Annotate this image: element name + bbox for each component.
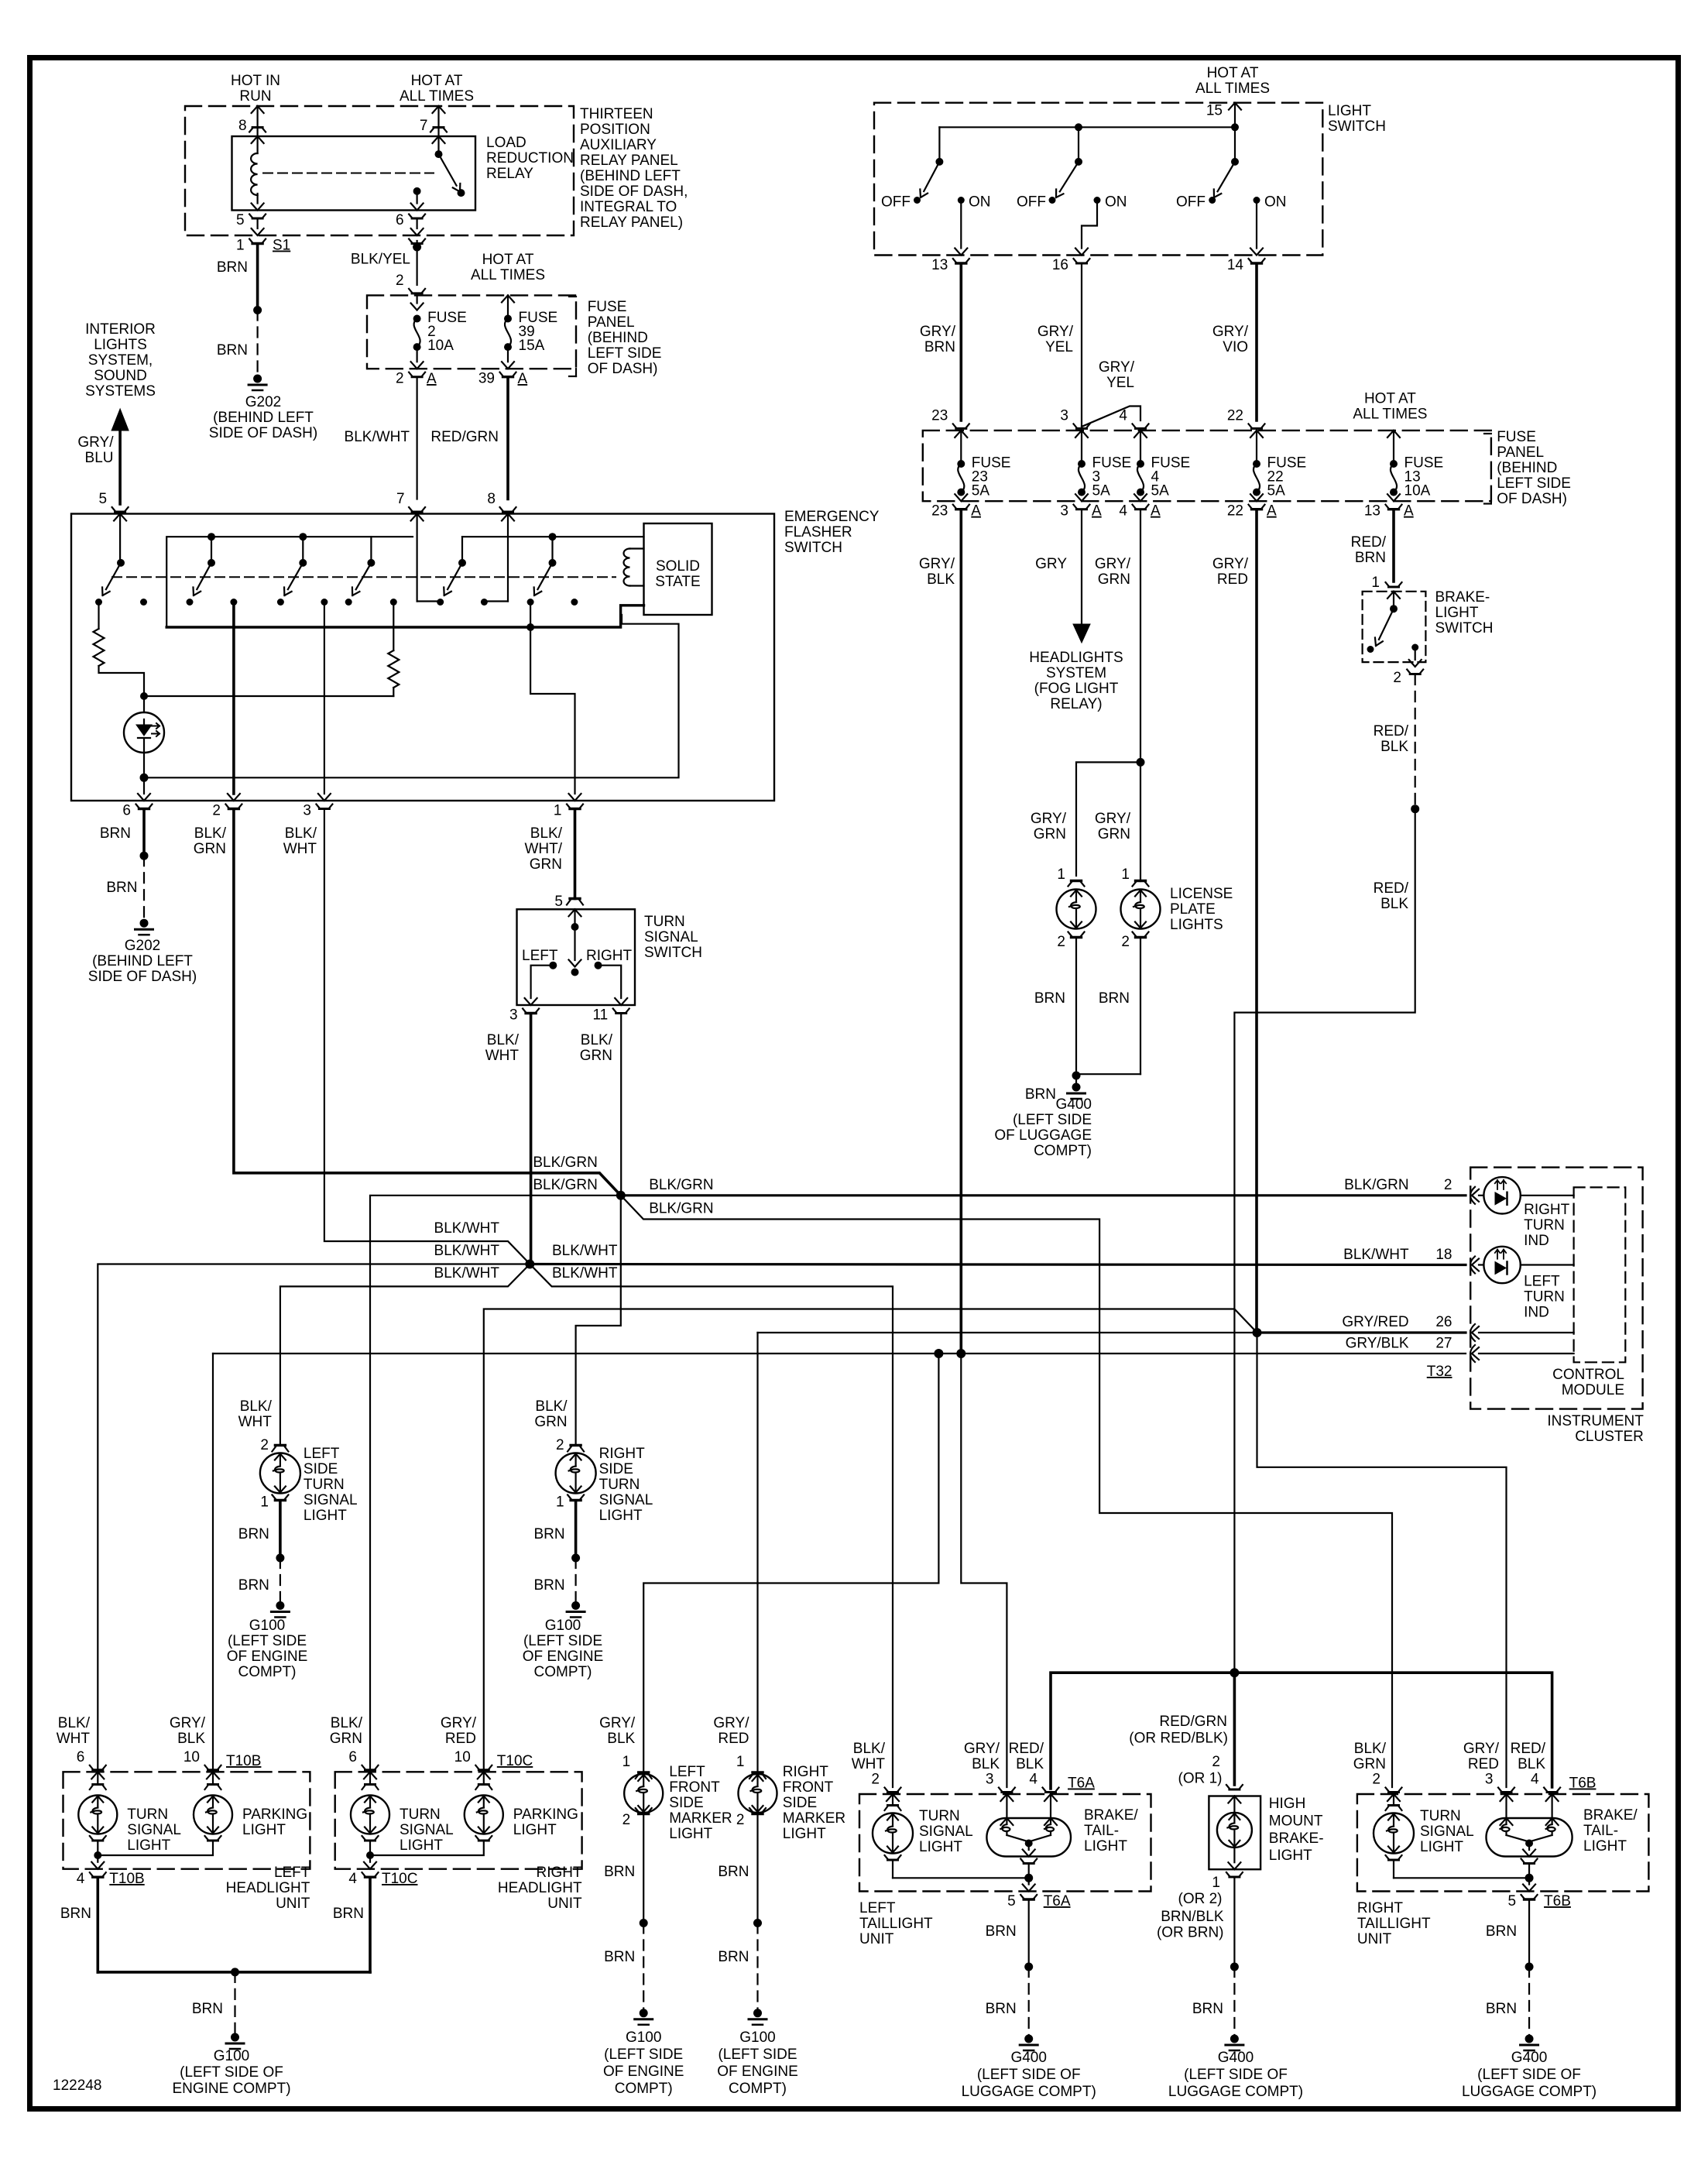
svg-text:OF DASH): OF DASH)	[1497, 491, 1567, 507]
svg-text:UNIT: UNIT	[1357, 1931, 1392, 1947]
svg-text:SWITCH: SWITCH	[784, 540, 842, 556]
svg-text:OFF: OFF	[1017, 194, 1046, 211]
ground G100 (side marker)	[753, 2009, 762, 2017]
wire GRY/BLK fuse23 down (thick)	[960, 511, 963, 1354]
svg-text:LUGGAGE COMPT): LUGGAGE COMPT)	[962, 2084, 1096, 2100]
svg-text:1: 1	[236, 238, 245, 254]
brake/tail light twin filament bulb	[986, 1818, 1071, 1857]
EFS pin5 internal stem to switch 1	[114, 514, 126, 521]
svg-text:BLK/GRN: BLK/GRN	[649, 1177, 713, 1193]
brake switch pin 2 out	[1415, 650, 1416, 660]
svg-text:5: 5	[99, 491, 108, 507]
svg-text:BLK: BLK	[972, 1756, 1000, 1772]
wire RED/BLK to taillight pins 4 (thick)	[1051, 1673, 1552, 1789]
svg-text:22: 22	[1227, 503, 1243, 520]
wire BLK/GRN to cluster pin2	[621, 1194, 1466, 1196]
svg-text:BRN: BRN	[106, 880, 137, 896]
svg-text:LEFT: LEFT	[669, 1764, 705, 1780]
svg-text:LIGHT: LIGHT	[127, 1837, 170, 1854]
svg-text:RIGHT: RIGHT	[599, 1446, 646, 1462]
wire RED/BLK to taillights	[1234, 809, 1415, 1673]
svg-text:(LEFT SIDE OF: (LEFT SIDE OF	[180, 2064, 283, 2081]
svg-text:BRN: BRN	[986, 2001, 1017, 2017]
svg-text:BLK/: BLK/	[581, 1032, 613, 1048]
svg-text:TAILLIGHT: TAILLIGHT	[1357, 1916, 1431, 1932]
svg-text:GRN: GRN	[1034, 826, 1066, 842]
fuse 39 feed arrow	[502, 295, 514, 302]
wire GRY/RED to right parking light and right marker	[484, 1309, 1257, 1772]
relay output contact to pin 6	[413, 187, 421, 195]
headlight pin 6 connector	[362, 1765, 379, 1770]
svg-text:(LEFT SIDE OF: (LEFT SIDE OF	[1477, 2067, 1581, 2083]
taillight internal ground link	[892, 1861, 893, 1879]
EFS switch contact set 6	[549, 559, 557, 567]
turn signal light bulb	[91, 1772, 104, 1779]
svg-text:LIGHT: LIGHT	[1435, 605, 1479, 621]
svg-text:BLK: BLK	[1016, 1756, 1044, 1772]
svg-text:HOT AT: HOT AT	[1207, 65, 1259, 81]
EFS switch contact set 2	[207, 559, 215, 567]
turn signal light bulb	[887, 1794, 899, 1801]
svg-text:INTEGRAL TO: INTEGRAL TO	[580, 199, 677, 215]
svg-text:BLK/: BLK/	[853, 1741, 886, 1757]
svg-text:GRN: GRN	[534, 1414, 567, 1430]
wire RED/BLK to high mount brake light	[1233, 1673, 1236, 1785]
wire BLK/WHT TSS pin3 to junction (thick)	[530, 1015, 533, 1261]
svg-text:OF LUGGAGE: OF LUGGAGE	[994, 1127, 1092, 1144]
svg-text:(LEFT SIDE OF: (LEFT SIDE OF	[1184, 2067, 1288, 2083]
ground G202	[253, 375, 262, 383]
svg-text:SIGNAL: SIGNAL	[644, 929, 698, 945]
svg-text:4: 4	[1531, 1772, 1539, 1788]
svg-text:BRN: BRN	[238, 1577, 269, 1594]
wire sw2-right to EFS pin 2 (thick)	[232, 602, 235, 794]
left headlight unit dashed box	[63, 1772, 310, 1868]
fuse 23 5A	[953, 424, 969, 428]
svg-text:GRY/: GRY/	[441, 1715, 477, 1731]
svg-text:OF ENGINE: OF ENGINE	[227, 1649, 308, 1665]
svg-text:WHT/: WHT/	[524, 841, 562, 857]
svg-text:PANEL: PANEL	[588, 314, 635, 331]
fuse 22 5A	[1249, 424, 1265, 428]
svg-text:TAIL-: TAIL-	[1583, 1823, 1618, 1839]
wire GRY/RED to right taillight pin3	[1257, 1333, 1507, 1787]
svg-text:UNIT: UNIT	[547, 1896, 582, 1912]
relay pin 6 connector	[409, 214, 425, 219]
EFS switch contact set 4	[367, 559, 375, 567]
svg-text:T10B: T10B	[109, 1871, 144, 1887]
svg-text:CLUSTER: CLUSTER	[1575, 1429, 1644, 1445]
svg-text:BRN: BRN	[604, 1949, 635, 1965]
svg-text:WHT: WHT	[852, 1756, 886, 1772]
svg-text:(LEFT SIDE: (LEFT SIDE	[523, 1633, 602, 1649]
svg-text:LIGHT: LIGHT	[400, 1837, 443, 1854]
svg-text:OFF: OFF	[881, 194, 911, 211]
fuse panel pin 2 connector	[409, 289, 425, 293]
control module dashed box	[1574, 1187, 1626, 1362]
svg-text:122248: 122248	[53, 2078, 101, 2094]
svg-text:GRN: GRN	[1098, 826, 1130, 842]
fuse 4 5A	[1133, 424, 1149, 428]
svg-text:5A: 5A	[1092, 483, 1111, 499]
svg-text:BRN: BRN	[192, 2001, 223, 2017]
svg-text:BRN: BRN	[217, 259, 248, 276]
svg-text:GRY/RED: GRY/RED	[1342, 1314, 1408, 1330]
svg-text:GRY/: GRY/	[77, 434, 114, 451]
light switch feed bus	[939, 126, 1235, 128]
wire BLK/YEL pin6 to fuse 2	[409, 239, 425, 244]
svg-text:5A: 5A	[972, 483, 990, 499]
svg-text:COMPT): COMPT)	[238, 1664, 297, 1680]
svg-text:16: 16	[1052, 257, 1068, 273]
wire GRY/BLK distribution	[213, 1353, 1466, 1354]
svg-text:BLK: BLK	[607, 1731, 635, 1747]
wire GRY/RED to cluster pin26	[1257, 1331, 1466, 1333]
svg-text:BLK/: BLK/	[1354, 1741, 1387, 1757]
TSS pin 5 connector	[570, 897, 580, 900]
headlight pin 4 connector	[362, 1872, 379, 1877]
wire BLK/GRN EFS pin2 branch	[234, 810, 619, 1194]
wire RED/BRN fuse13 to brake switch (thick)	[1392, 511, 1395, 582]
wire BRN to G400	[1528, 1900, 1530, 1968]
svg-text:SWITCH: SWITCH	[1435, 620, 1494, 636]
svg-text:6: 6	[348, 1749, 357, 1765]
svg-text:(LEFT SIDE: (LEFT SIDE	[718, 2047, 797, 2063]
svg-text:RED: RED	[1217, 571, 1248, 588]
svg-text:TURN: TURN	[1524, 1288, 1565, 1305]
wire BLK/WHT to left headlight turn signal	[98, 1264, 530, 1772]
fuse 3 5A	[1074, 424, 1090, 428]
fuse panel pin 2A connector	[409, 372, 425, 377]
ground G100 (headlights)	[231, 2033, 239, 2042]
svg-text:OF ENGINE: OF ENGINE	[523, 1649, 604, 1665]
svg-text:TURN: TURN	[644, 914, 685, 930]
svg-text:G100: G100	[739, 2029, 775, 2046]
headlight pin 10 connector	[205, 1765, 221, 1770]
svg-text:G202: G202	[125, 938, 160, 954]
EFS pilot LED	[143, 696, 145, 712]
svg-text:SIDE: SIDE	[669, 1795, 703, 1811]
svg-text:8: 8	[238, 118, 247, 134]
svg-text:COMPT): COMPT)	[729, 2081, 787, 2097]
junction	[140, 852, 149, 860]
svg-text:(LEFT SIDE: (LEFT SIDE	[1013, 1112, 1092, 1128]
wire EFS pin1 to TSS pin5 (thick)	[574, 809, 577, 899]
svg-text:COMPT): COMPT)	[1034, 1143, 1092, 1159]
svg-text:LIGHTS: LIGHTS	[94, 337, 147, 353]
wire LED to pin 6 / solid state return	[143, 753, 145, 777]
svg-text:3: 3	[1485, 1772, 1494, 1788]
wire BRN/BLK to G400	[1233, 1878, 1235, 1968]
svg-text:2: 2	[1393, 670, 1401, 686]
light switch section 2	[1075, 123, 1082, 131]
wire sw3-right to EFS pin 3	[324, 602, 325, 794]
svg-text:INSTRUMENT: INSTRUMENT	[1547, 1413, 1644, 1429]
svg-text:RELAY: RELAY	[486, 166, 533, 182]
svg-text:ALL TIMES: ALL TIMES	[400, 88, 474, 105]
svg-text:RIGHT: RIGHT	[536, 1865, 582, 1881]
svg-text:LIGHTS: LIGHTS	[1170, 917, 1223, 933]
svg-text:(OR 1): (OR 1)	[1178, 1771, 1223, 1787]
internal ground link	[97, 1841, 98, 1856]
svg-text:GRY/: GRY/	[919, 556, 955, 572]
svg-text:BLK/: BLK/	[487, 1032, 520, 1048]
wire RED/GRN fuse39 to EFS pin8	[506, 377, 509, 499]
internal ground link	[369, 1841, 371, 1856]
svg-text:(BEHIND: (BEHIND	[588, 330, 648, 346]
svg-text:TURN: TURN	[919, 1808, 960, 1824]
svg-text:A: A	[1151, 503, 1161, 520]
svg-text:G100: G100	[626, 2029, 661, 2046]
relay actuation dashed link	[263, 173, 434, 174]
svg-text:RELAY PANEL: RELAY PANEL	[580, 153, 678, 169]
svg-text:1: 1	[1121, 866, 1130, 883]
svg-text:TURN: TURN	[127, 1806, 168, 1823]
svg-text:27: 27	[1435, 1336, 1452, 1352]
wire BRN EFS pin6 to G202	[142, 809, 146, 856]
ground G400 (license)	[1072, 1083, 1081, 1092]
svg-text:LIGHT: LIGHT	[1420, 1839, 1463, 1855]
svg-text:BLK/: BLK/	[285, 825, 317, 842]
svg-text:LEFT SIDE: LEFT SIDE	[588, 345, 662, 362]
wire pin 13 out	[960, 204, 962, 249]
svg-text:YEL: YEL	[1045, 339, 1073, 355]
svg-text:BRN: BRN	[217, 342, 248, 359]
splice S1 connector	[249, 239, 266, 244]
svg-text:ALL TIMES: ALL TIMES	[471, 267, 545, 283]
svg-text:LIGHT: LIGHT	[1583, 1838, 1627, 1854]
fuse 2 10A	[413, 315, 421, 323]
svg-text:A: A	[518, 371, 528, 387]
relay panel pin 8 connector	[252, 106, 264, 113]
wire GRY/RED to right front side marker	[756, 1333, 758, 1773]
wire BRN to G100	[574, 1501, 578, 1558]
svg-text:BRN: BRN	[1099, 990, 1130, 1007]
svg-text:1: 1	[556, 1494, 564, 1511]
svg-text:MOUNT: MOUNT	[1269, 1813, 1323, 1829]
svg-text:BLK: BLK	[1380, 739, 1408, 755]
svg-text:WHT: WHT	[57, 1731, 91, 1747]
svg-text:2: 2	[556, 1437, 564, 1453]
svg-text:2: 2	[1444, 1177, 1452, 1193]
svg-text:3: 3	[1060, 503, 1068, 520]
svg-text:BRN: BRN	[604, 1864, 635, 1880]
svg-text:2: 2	[1121, 934, 1130, 950]
svg-text:SWITCH: SWITCH	[644, 945, 702, 961]
svg-text:LIGHT: LIGHT	[669, 1826, 712, 1842]
svg-text:T32: T32	[1427, 1364, 1452, 1380]
svg-text:BLK/YEL: BLK/YEL	[351, 252, 410, 268]
svg-text:AUXILIARY: AUXILIARY	[580, 137, 657, 153]
turn signal switch box	[517, 909, 636, 1005]
svg-text:OF ENGINE: OF ENGINE	[603, 2064, 684, 2080]
ground G100 (side marker)	[640, 2009, 648, 2017]
thirteen position auxiliary relay panel (dashed box)	[185, 106, 574, 235]
svg-text:OF DASH): OF DASH)	[588, 361, 658, 377]
svg-text:SYSTEM,: SYSTEM,	[88, 352, 153, 369]
wire GRY/BLU to EFS pin5	[118, 431, 122, 504]
svg-text:BLK: BLK	[1380, 896, 1408, 912]
svg-text:5A: 5A	[1267, 483, 1286, 499]
svg-text:HOT AT: HOT AT	[411, 73, 463, 89]
svg-text:GRY/: GRY/	[1099, 359, 1135, 376]
svg-text:14: 14	[1227, 257, 1244, 273]
svg-text:T6A: T6A	[1068, 1776, 1095, 1792]
svg-text:COMPT): COMPT)	[615, 2081, 673, 2097]
svg-text:RED/GRN: RED/GRN	[1159, 1714, 1227, 1730]
svg-text:IND: IND	[1524, 1304, 1549, 1320]
svg-text:GRN: GRN	[530, 856, 562, 873]
junction	[231, 1968, 239, 1976]
svg-text:5: 5	[1507, 1893, 1516, 1909]
wire BRN to G400	[1028, 1900, 1030, 1968]
relay coil	[252, 136, 264, 143]
taillight pin 4 connector	[1544, 1788, 1560, 1793]
svg-text:SIDE: SIDE	[599, 1461, 633, 1477]
svg-text:2: 2	[396, 371, 404, 387]
svg-text:6: 6	[122, 803, 131, 819]
svg-text:BLK: BLK	[927, 571, 955, 588]
EFS switch4 pivot stem	[370, 537, 372, 563]
left turn indicator LED	[1479, 1264, 1483, 1265]
svg-text:BLK/: BLK/	[530, 825, 563, 842]
svg-text:GRY/: GRY/	[1095, 556, 1131, 572]
svg-text:SIGNAL: SIGNAL	[127, 1822, 181, 1838]
svg-text:T10C: T10C	[497, 1753, 533, 1769]
svg-text:LIGHT: LIGHT	[242, 1822, 286, 1838]
svg-text:BLK/GRN: BLK/GRN	[1344, 1177, 1408, 1193]
svg-text:GRY/: GRY/	[1463, 1741, 1500, 1757]
node BLK/WHT junction	[525, 1260, 534, 1269]
node BLK/GRN junction	[616, 1191, 626, 1200]
svg-text:TURN: TURN	[400, 1806, 441, 1823]
svg-text:ALL TIMES: ALL TIMES	[1195, 81, 1270, 97]
svg-text:HEADLIGHT: HEADLIGHT	[498, 1880, 582, 1896]
svg-text:LEFT: LEFT	[1524, 1273, 1560, 1289]
svg-text:GRN: GRN	[194, 841, 226, 857]
svg-text:BLK/GRN: BLK/GRN	[649, 1201, 713, 1217]
svg-text:BLU: BLU	[85, 450, 114, 466]
svg-text:GRY/: GRY/	[1212, 324, 1249, 340]
svg-text:BRN: BRN	[60, 1906, 91, 1922]
EFS switch3 pivot stem	[299, 533, 307, 540]
svg-text:ON: ON	[1105, 194, 1127, 211]
svg-text:LEFT: LEFT	[304, 1446, 340, 1462]
EFS switch2 pivot stem	[207, 533, 215, 540]
fuse panel (dashed box, light switch fuses)	[923, 431, 1491, 501]
svg-text:1: 1	[554, 803, 562, 819]
parking light bulb	[207, 1772, 219, 1779]
svg-text:2: 2	[1212, 1754, 1220, 1770]
svg-text:FLASHER: FLASHER	[784, 524, 852, 540]
svg-text:BLK: BLK	[1518, 1756, 1545, 1772]
svg-text:LICENSE: LICENSE	[1170, 886, 1233, 902]
svg-text:LIGHT: LIGHT	[783, 1826, 826, 1842]
svg-text:LEFT: LEFT	[859, 1900, 896, 1916]
svg-text:2: 2	[871, 1772, 880, 1788]
high mount pin 1 connector	[1226, 1872, 1243, 1877]
ground G400 (high mount)	[1230, 2035, 1239, 2043]
svg-text:CONTROL: CONTROL	[1552, 1367, 1624, 1383]
svg-text:4: 4	[77, 1871, 85, 1887]
svg-text:THIRTEEN: THIRTEEN	[580, 106, 653, 122]
svg-text:ENGINE COMPT): ENGINE COMPT)	[172, 2081, 290, 2097]
svg-text:5: 5	[1007, 1893, 1016, 1909]
high mount bulb	[1228, 1796, 1240, 1803]
svg-text:BRAKE/: BRAKE/	[1583, 1807, 1638, 1824]
EFS pin 3 connector	[316, 805, 332, 809]
brake/tail light twin filament bulb	[1487, 1818, 1573, 1857]
svg-text:5: 5	[554, 894, 563, 910]
load reduction relay K1 box	[232, 136, 476, 211]
svg-text:10: 10	[183, 1749, 200, 1765]
junction	[253, 306, 262, 314]
junction	[140, 774, 149, 782]
svg-text:SWITCH: SWITCH	[1328, 118, 1386, 135]
svg-text:2: 2	[396, 273, 404, 289]
svg-text:(OR RED/BLK): (OR RED/BLK)	[1129, 1731, 1228, 1747]
svg-text:BLK/WHT: BLK/WHT	[434, 1265, 500, 1282]
svg-text:FRONT: FRONT	[669, 1779, 720, 1796]
svg-text:T10C: T10C	[382, 1871, 417, 1887]
svg-text:LEFT SIDE: LEFT SIDE	[1497, 475, 1571, 492]
svg-text:BRN: BRN	[533, 1526, 564, 1542]
svg-text:A: A	[971, 503, 981, 520]
svg-text:GRY/: GRY/	[964, 1741, 1000, 1757]
svg-text:LIGHT: LIGHT	[599, 1508, 643, 1524]
svg-text:HOT AT: HOT AT	[482, 252, 534, 268]
fuse 39 15A	[504, 315, 512, 323]
svg-text:WHT: WHT	[485, 1048, 520, 1064]
svg-text:FUSE: FUSE	[588, 299, 627, 315]
svg-text:T10B: T10B	[226, 1753, 261, 1769]
wire BRN to G100	[756, 1814, 758, 1923]
svg-text:A: A	[1267, 503, 1277, 520]
svg-text:BRN: BRN	[100, 825, 131, 842]
svg-text:LIGHT: LIGHT	[513, 1822, 557, 1838]
taillight pin 3 connector	[1498, 1788, 1514, 1793]
TSS pin 11 connector	[613, 1009, 629, 1014]
svg-text:FRONT: FRONT	[783, 1779, 834, 1796]
svg-text:SYSTEM: SYSTEM	[1046, 665, 1106, 681]
svg-text:STATE: STATE	[655, 574, 700, 590]
wire GRY/BLK to left parking light	[212, 1354, 214, 1772]
svg-text:A: A	[1092, 503, 1102, 520]
svg-text:BLK/WHT: BLK/WHT	[552, 1243, 618, 1259]
brake-light switch dashed box	[1363, 592, 1426, 662]
wire BLK/WHT to cluster pin18	[530, 1264, 1466, 1265]
svg-text:G100: G100	[249, 1618, 285, 1634]
svg-text:COMPT): COMPT)	[534, 1664, 592, 1680]
svg-text:RIGHT: RIGHT	[783, 1764, 829, 1780]
junction	[140, 692, 148, 700]
svg-text:15A: 15A	[519, 338, 545, 354]
svg-text:PARKING: PARKING	[513, 1806, 578, 1823]
svg-text:A: A	[427, 371, 437, 387]
svg-text:T6A: T6A	[1044, 1893, 1071, 1909]
svg-text:7: 7	[396, 491, 405, 507]
svg-text:GRY/: GRY/	[713, 1715, 749, 1731]
EFS pin7 internal stem	[411, 514, 424, 521]
wire BLK/WHT to left side turn signal	[280, 1264, 530, 1446]
svg-text:G400: G400	[1511, 2050, 1547, 2066]
taillight pin 3 connector	[999, 1788, 1015, 1793]
svg-text:LIGHT: LIGHT	[1084, 1838, 1127, 1854]
svg-text:5A: 5A	[1151, 483, 1170, 499]
svg-text:BRAKE-: BRAKE-	[1435, 589, 1490, 606]
wire pin 16 out	[1082, 204, 1097, 249]
svg-text:(LEFT SIDE: (LEFT SIDE	[604, 2047, 683, 2063]
